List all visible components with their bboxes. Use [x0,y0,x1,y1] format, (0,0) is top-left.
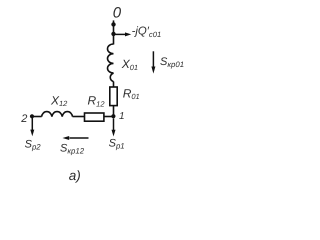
arrow Sр1 [112,118,116,136]
svg-text:0: 0 [113,4,122,21]
wire coil to node 2 [32,116,42,118]
wire junction to coil [113,34,115,45]
node 0 junction dot [111,22,115,26]
junction dot for charging-power branch [111,32,115,36]
inductor X01 (coil) [108,44,114,82]
wire coil to R01 [113,82,115,88]
wire R12 to coil X12 [73,116,85,118]
arrow Sкр01 [151,51,155,73]
inductor X12 (coil) [42,112,73,117]
arrow Sкр12 [63,136,89,140]
svg-text:2: 2 [20,113,27,125]
arrow Sр2 [30,118,34,136]
resistor R12 [85,113,104,121]
node 2 dot [30,114,34,118]
wire node1 to R12 [104,116,114,118]
wire top stub [113,20,115,24]
wire between junctions [113,24,115,34]
arrow -jQ'c01 [116,32,132,36]
node 1 dot [111,114,115,118]
wire R01 to node 1 [113,106,115,118]
resistor R01 [110,87,117,106]
svg-text:1: 1 [119,111,125,122]
svg-text:а): а) [69,168,81,183]
